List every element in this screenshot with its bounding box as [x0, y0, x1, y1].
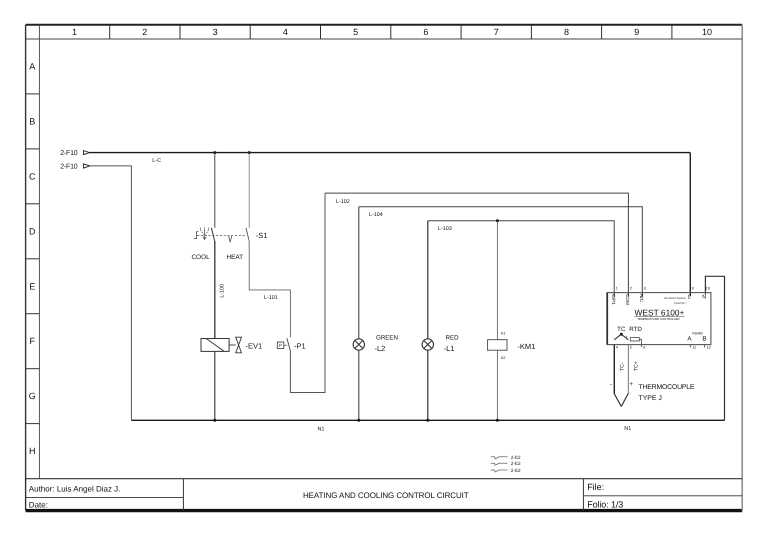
wire L-102 to controller COM [325, 193, 628, 297]
switch -S1 COOL contact blade [211, 228, 214, 241]
svg-text:TC: TC [617, 326, 626, 333]
cross-reference contact 2-E2 c [491, 470, 508, 472]
svg-text:2-E2: 2-E2 [511, 468, 521, 473]
svg-text:L-C: L-C [152, 158, 161, 164]
wire lamp L2 to N1 [358, 350, 360, 420]
svg-text:RTD: RTD [629, 326, 642, 333]
terminal arrow 2-F10 bottom [60, 164, 90, 171]
junction dot N1 / EV1 [213, 419, 216, 422]
wire L-104 drop to lamp L2 [358, 207, 360, 339]
svg-text:2-F10: 2-F10 [60, 150, 78, 157]
wire HEAT contact to L-101 [249, 241, 290, 337]
wire L-C bus [90, 152, 691, 154]
svg-text:-EV1: -EV1 [246, 341, 263, 350]
svg-text:GREEN: GREEN [376, 335, 398, 342]
RTD input symbol [630, 338, 641, 345]
wire TC+ from terminal 5 [627, 345, 629, 394]
svg-text:-KM1: -KM1 [517, 342, 535, 351]
switch -S1 manual actuator arrow [200, 227, 209, 239]
svg-text:-: - [610, 381, 612, 388]
temperature controller U1 WEST 6100+ body [607, 293, 711, 345]
junction dot N1 / L1 [426, 419, 429, 422]
svg-text:2-E2: 2-E2 [511, 455, 521, 460]
switch -S1 HEAT contact blade [246, 228, 249, 241]
svg-text:F: F [30, 336, 36, 346]
wire drop to S1 HEAT contact [248, 153, 250, 228]
svg-text:N1: N1 [624, 426, 631, 432]
wire neutral feeder from 2-F10 bottom [90, 166, 132, 420]
wire KM1 to N1 [496, 350, 498, 420]
svg-text:L-100: L-100 [219, 284, 225, 298]
svg-text:TEMPERATURE CONTROLLER: TEMPERATURE CONTROLLER [637, 317, 679, 321]
svg-text:Date:: Date: [29, 501, 48, 510]
wire N1 neutral bus [131, 419, 724, 421]
svg-text:COOL: COOL [192, 254, 211, 261]
svg-text:9: 9 [692, 286, 694, 290]
svg-text:D: D [29, 226, 36, 236]
wire lamp L1 to N1 [427, 350, 429, 420]
controller terminal stub 1 [613, 293, 615, 297]
svg-text:G: G [29, 391, 36, 401]
wire KM1 branch from L-103 [496, 221, 498, 340]
svg-text:P: P [279, 343, 282, 348]
svg-text:COM: COM [625, 294, 630, 305]
junction dot L-103 / KM1 [496, 219, 499, 222]
label THERMOCOUPLE TYPE J [639, 384, 695, 402]
svg-text:E: E [29, 281, 35, 291]
svg-text:RED: RED [446, 335, 460, 342]
svg-text:2: 2 [142, 27, 147, 37]
svg-text:5: 5 [353, 27, 358, 37]
svg-text:A1: A1 [501, 331, 506, 335]
pin tick 6 [641, 345, 643, 347]
svg-text:Folio: 1/3: Folio: 1/3 [587, 499, 623, 509]
svg-text:L-102: L-102 [336, 199, 350, 205]
svg-text:L-101: L-101 [264, 295, 278, 301]
wire N from controller terminal 10 to N1 [705, 276, 724, 420]
svg-text:1: 1 [72, 27, 77, 37]
pressure switch -P1 contact blade [287, 338, 291, 351]
svg-text:10: 10 [702, 27, 712, 37]
svg-text:-L1: -L1 [444, 344, 455, 353]
svg-text:A2: A2 [501, 356, 506, 360]
controller terminal stub 10 [704, 293, 706, 295]
svg-text:-L2: -L2 [375, 344, 386, 353]
switch -S1 manual actuator lever [194, 232, 198, 239]
svg-text:TC-: TC- [619, 362, 625, 371]
wire L-100 [214, 241, 216, 339]
svg-text:8: 8 [564, 27, 569, 37]
solenoid valve -EV1 valve body [236, 337, 242, 353]
svg-text:100-240VAC 50/60Hz: 100-240VAC 50/60Hz [664, 297, 687, 300]
svg-text:12: 12 [707, 345, 711, 349]
svg-text:A: A [29, 62, 35, 72]
thermocouple B1 probe [614, 393, 628, 406]
wire P1 to L-102 riser [290, 193, 325, 392]
pressure switch -P1 actuator box P [277, 342, 287, 348]
junction dot N1 / KM1 [496, 419, 499, 422]
solenoid valve -EV1 lead [229, 344, 236, 346]
lamp -L2 GREEN [353, 339, 364, 350]
svg-text:7: 7 [494, 27, 499, 37]
controller terminal stub 3 [641, 293, 643, 297]
wire EV1 to N1 [214, 351, 216, 420]
svg-text:4: 4 [283, 27, 288, 37]
svg-text:-: - [613, 335, 614, 339]
svg-text:-P1: -P1 [294, 341, 306, 350]
svg-text:L-104: L-104 [369, 212, 383, 218]
label WEST 6100+ [635, 307, 685, 317]
svg-text:TYPE J: TYPE J [639, 395, 662, 402]
svg-text:N/C: N/C [639, 294, 644, 303]
terminal arrow 2-F10 top [60, 150, 90, 157]
cross-reference contact 2-E2 a [491, 457, 508, 459]
svg-text:11: 11 [692, 345, 696, 349]
junction dot L-C / HEAT [248, 151, 251, 154]
svg-text:3: 3 [644, 286, 646, 290]
wire TC- from terminal 4 [613, 345, 615, 394]
cross-reference contact 2-E2 b [491, 463, 508, 465]
svg-text:TC+: TC+ [633, 361, 639, 371]
svg-text:6: 6 [423, 27, 428, 37]
svg-text:THERMOCOUPLE: THERMOCOUPLE [639, 384, 695, 391]
svg-text:O/P1: O/P1 [611, 294, 616, 305]
svg-text:3: 3 [213, 27, 218, 37]
pin tick 11 [689, 345, 691, 348]
wire L-103 to controller O/P1 [428, 221, 614, 297]
svg-text:4: 4 [616, 345, 618, 349]
pin tick 12 [704, 345, 706, 348]
svg-text:Author: Luis Angel Diaz J.: Author: Luis Angel Diaz J. [29, 485, 121, 494]
junction dot N1 / L2 [357, 419, 360, 422]
svg-text:2-F10: 2-F10 [60, 164, 78, 171]
svg-text:C: C [29, 171, 36, 181]
svg-text:10: 10 [706, 286, 710, 290]
svg-text:HEAT: HEAT [227, 254, 244, 261]
svg-text:2: 2 [630, 286, 632, 290]
svg-text:HEATING AND COOLING CONTROL CI: HEATING AND COOLING CONTROL CIRCUIT [303, 491, 469, 500]
svg-text:N: N [702, 295, 706, 301]
wire drop to S1 COOL contact [214, 153, 216, 228]
thermocouple input symbol [613, 333, 629, 340]
svg-text:L-103: L-103 [438, 226, 452, 232]
svg-text:24VAC/DC *: 24VAC/DC * [674, 302, 687, 305]
solenoid valve -EV1 coil [201, 339, 229, 352]
svg-text:2-E2: 2-E2 [511, 461, 521, 466]
svg-text:-S1: -S1 [256, 231, 268, 240]
svg-text:B: B [29, 116, 35, 126]
svg-text:+: + [626, 335, 628, 339]
svg-text:L: L [688, 295, 691, 301]
svg-text:H: H [29, 446, 36, 456]
switch -S1 mechanical link dashed [197, 235, 246, 237]
controller terminal stub 2 [627, 293, 629, 297]
wire L phase drop to controller terminal 9 [689, 153, 691, 297]
svg-text:A: A [687, 336, 692, 343]
svg-text:9: 9 [634, 27, 639, 37]
junction dot L-C / COOL [213, 151, 216, 154]
lamp -L1 RED [422, 339, 433, 350]
wire L-104 to controller N/C [359, 207, 643, 297]
contactor coil -KM1 [488, 340, 507, 351]
svg-text:1: 1 [616, 286, 618, 290]
switch -S1 link V notch [229, 236, 232, 243]
svg-text:RS485: RS485 [692, 332, 702, 336]
wire L-103 drop to lamp L1 [427, 221, 429, 339]
svg-text:5: 5 [630, 345, 632, 349]
svg-text:File:: File: [587, 482, 604, 492]
svg-text:+: + [629, 381, 633, 388]
svg-text:B: B [702, 336, 706, 343]
svg-text:6: 6 [643, 345, 645, 349]
svg-text:N1: N1 [318, 427, 325, 433]
